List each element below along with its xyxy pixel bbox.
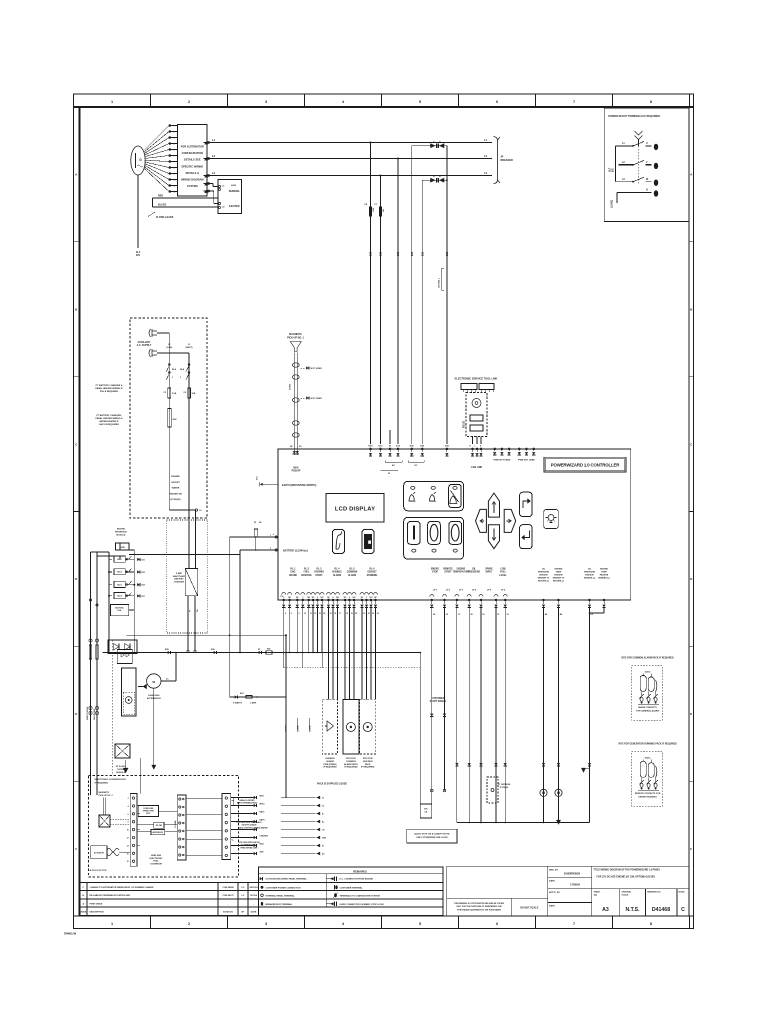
svg-text:CRANK: CRANK [289,574,297,577]
svg-text:RUNNING: RUNNING [367,575,378,577]
svg-text:START: START [444,571,452,574]
svg-text:PNL B REQUIRED: PNL B REQUIRED [100,391,119,393]
svg-text:3: 3 [174,138,175,140]
svg-text:8 WAY CONNECTOR ON EMER. STOP: 8 WAY CONNECTOR ON EMER. STOP LOOM [340,903,384,906]
svg-text:ALARM: ALARM [326,760,334,763]
svg-text:PURCHASED EQUIPMENT BY THE PUR: PURCHASED EQUIPMENT BY THE PURCHASER [457,908,501,911]
svg-text:SYSTEM: SYSTEM [187,184,197,188]
svg-text:RS232: RS232 [464,420,466,428]
svg-text:START SIGNAL: START SIGNAL [430,700,447,703]
svg-text:CON-24288: CON-24288 [222,886,234,889]
svg-text:J.C.: J.C. [241,887,245,889]
svg-text:RLA: RLA [180,368,185,371]
svg-text:D.C. CONNECTOR FROM ENGINE: D.C. CONNECTOR FROM ENGINE [340,879,374,881]
svg-text:REMOTE: REMOTE [443,569,453,571]
svg-text:RL-3: RL-3 [317,569,323,571]
svg-text:ELECTRONIC GOVERNOR BOX: ELECTRONIC GOVERNOR BOX [95,779,127,781]
svg-text:QUICK STOP ON A CANOPY NOTE: QUICK STOP ON A CANOPY NOTE [414,833,450,836]
svg-text:J COMM: J COMM [175,820,177,828]
svg-text:FIRST ISSUE: FIRST ISSUE [90,904,103,906]
svg-text:GND: GND [322,838,327,840]
svg-text:A PLUG OF FCE: A PLUG OF FCE [90,869,107,872]
svg-text:RD TAD: RD TAD [156,824,163,827]
svg-text:ASSY B REQUIRED: ASSY B REQUIRED [99,423,119,426]
svg-text:DETAILS SEE: DETAILS SEE [184,158,201,162]
svg-text:DESCRIPTION: DESCRIPTION [90,912,105,914]
svg-text:OUTGOING/INCOMING PANEL TERMIN: OUTGOING/INCOMING PANEL TERMINAL [266,878,308,881]
svg-text:2X D+/W.L: 2X D+/W.L [116,766,127,768]
svg-text:DATE: DATE [549,905,555,908]
svg-text:28: 28 [471,614,473,616]
svg-text:LOW: LOW [500,569,506,571]
svg-text:(IF REQD): (IF REQD) [170,499,181,501]
svg-text:14: 14 [323,612,325,615]
svg-text:E/S: E/S [613,168,615,172]
svg-text:REMOTE CONTACTS FOR: REMOTE CONTACTS FOR [635,792,661,795]
svg-text:25: 25 [446,614,448,616]
svg-text:START: START [315,574,323,577]
svg-text:INPUT: INPUT [486,572,493,574]
svg-text:LCD DISPLAY: LCD DISPLAY [335,507,375,513]
svg-text:BATTERY: BATTERY [174,578,184,581]
svg-text:CHANGE TO ALTERNATOR WIRING/MO: CHANGE TO ALTERNATOR WIRING/MOD. OF NUMB… [90,886,155,889]
svg-text:HEATER 9W: HEATER 9W [169,492,183,495]
svg-text:DRAWING NO.: DRAWING NO. [647,891,661,894]
svg-text:6: 6 [496,922,498,926]
svg-text:SENDER (+): SENDER (+) [598,578,610,580]
svg-text:PICKUP: PICKUP [292,471,301,473]
svg-text:SCALE: SCALE [622,893,629,896]
svg-text:3P: 3P [501,157,504,159]
svg-text:DETAILS &: DETAILS & [186,171,199,175]
svg-text:ALT: ALT [609,167,612,172]
svg-text:RETURN (-): RETURN (-) [553,581,564,583]
svg-text:C2: C2 [199,510,201,512]
svg-text:CONTROL: CONTROL [301,575,313,577]
svg-text:DRN03.08: DRN03.08 [64,932,77,936]
svg-text:9: 9 [299,613,300,615]
svg-text:10: 10 [127,830,129,832]
svg-text:PACK: PACK [365,763,371,766]
svg-text:MODULE: MODULE [116,772,126,774]
svg-text:FUEL: FUEL [304,572,311,574]
svg-text:GENSET: GENSET [367,572,377,574]
svg-text:FUEL: FUEL [500,572,507,574]
svg-text:LEVEL: LEVEL [499,575,507,577]
svg-text:PT O/PRESS: PT O/PRESS [498,784,511,786]
svg-text:21: 21 [363,613,365,615]
svg-text:16: 16 [334,613,336,615]
svg-text:ALARM: ALARM [348,574,356,577]
svg-text:SENDER TO: SENDER TO [538,578,550,580]
svg-text:N.T.S.: N.T.S. [625,907,640,913]
svg-text:BATTERY (12/24Vdc): BATTERY (12/24Vdc) [283,550,308,553]
svg-text:E05: E05 [142,572,145,574]
svg-text:ENGINE: ENGINE [600,569,608,571]
svg-text:4: 4 [128,805,129,808]
svg-text:5: 5 [419,922,421,926]
svg-text:11: 11 [174,186,176,188]
svg-text:RLA: RLA [172,368,177,371]
svg-text:8: 8 [650,922,652,926]
svg-text:MPU+: MPU+ [260,804,266,806]
svg-text:MTG FOR COMMON ALARM PACK IF R: MTG FOR COMMON ALARM PACK IF REQUIRED [622,657,674,660]
svg-text:2: 2 [174,132,175,134]
svg-text:17: 17 [339,613,341,615]
svg-text:PANEL HEATER WIRING &: PANEL HEATER WIRING & [96,417,123,420]
svg-text:1(2): 1(2) [594,894,598,896]
svg-text:PICK-UP NO. 1: PICK-UP NO. 1 [287,336,304,339]
svg-text:EARTH [MOUNTING NORTH]: EARTH [MOUNTING NORTH] [282,484,316,487]
svg-text:FUEL: FUEL [153,861,159,863]
svg-text:CHARGE: CHARGE [260,827,269,830]
svg-text:POWER IN/OUT TERMINALS IF REQU: POWER IN/OUT TERMINALS IF REQUIRED [608,114,660,118]
svg-text:RL-5: RL-5 [350,569,356,571]
svg-text:19: 19 [351,613,353,615]
svg-text:DA13: DA13 [645,756,651,759]
svg-text:7: 7 [573,100,575,104]
svg-text:8: 8 [650,100,652,104]
svg-text:1 AMP: 1 AMP [250,702,257,705]
svg-text:CONN: CONN [120,547,126,549]
svg-text:6: 6 [285,613,286,615]
svg-text:C: C [681,907,685,913]
svg-text:24/11/04: 24/11/04 [250,886,259,889]
svg-text:TITLE WIRING DIAGRAM OF THE P: TITLE WIRING DIAGRAM OF THE POWERWIZARD … [594,869,661,872]
svg-text:DIODE: DIODE [118,769,125,771]
svg-text:MTG FOR: MTG FOR [363,758,373,760]
svg-text:10A: 10A [372,208,375,212]
svg-text:3: 3 [265,100,267,104]
svg-text:CUSTOMER POWER CONNECTION: CUSTOMER POWER CONNECTION [266,887,301,889]
svg-text:8: 8 [128,822,129,824]
svg-text:MAINS CONTACTS: MAINS CONTACTS [638,706,657,709]
svg-text:AUDIBLE: AUDIBLE [325,757,335,760]
svg-text:EMERG: EMERG [431,569,440,571]
svg-text:10: 10 [174,180,176,182]
svg-text:SENSING: SENSING [229,190,240,193]
svg-text:VE4D 4500: VE4D 4500 [151,854,162,857]
svg-text:B+: B+ [322,822,324,824]
svg-text:EARTH BOSS: EARTH BOSS [86,706,89,720]
svg-text:D41468: D41468 [652,907,670,913]
svg-text:GOVERNOR: GOVERNOR [150,863,162,865]
svg-text:EXCITER: EXCITER [229,205,240,208]
svg-text:PASSIVE: PASSIVE [554,574,563,577]
svg-text:13: 13 [319,613,321,615]
svg-text:DATE: DATE [251,911,257,914]
svg-text:DO NOT SCALE: DO NOT SCALE [520,907,538,910]
svg-text:ENGINE: ENGINE [555,569,563,571]
svg-text:COMMON: COMMON [347,572,358,574]
svg-text:6: 6 [496,100,498,104]
svg-text:E30: E30 [446,251,449,256]
svg-text:IF REQUIRED: IF REQUIRED [344,767,358,769]
svg-text:INTERFACE: INTERFACE [115,530,127,533]
svg-text:15: 15 [330,613,332,615]
svg-text:PWB NOT USED: PWB NOT USED [494,460,511,462]
svg-text:6: 6 [128,814,129,816]
svg-text:31: 31 [497,614,499,616]
svg-text:E20: E20 [411,251,414,256]
svg-text:DA13: DA13 [645,670,651,673]
svg-text:NOT USED: NOT USED [311,398,323,400]
svg-text:RL-2: RL-2 [304,569,310,571]
svg-text:ACTUATOR: ACTUATOR [94,852,105,855]
svg-text:DRN. BY: DRN. BY [549,870,559,872]
svg-text:ISSUE: ISSUE [679,892,686,894]
svg-text:PRESSURE: PRESSURE [468,572,481,574]
svg-text:2kW: 2kW [173,419,177,421]
svg-text:10A: 10A [192,392,196,395]
svg-text:A/S2: A/S2 [231,184,237,187]
svg-text:17/06/04: 17/06/04 [570,884,580,887]
svg-text:5 AMP: 5 AMP [176,572,183,575]
svg-text:PICK-UP NO. 2: PICK-UP NO. 2 [99,795,114,797]
svg-text:9: 9 [174,174,175,176]
svg-text:E08: E08 [142,585,145,587]
svg-text:E01: E01 [142,559,145,561]
svg-text:CHASSIS: CHASSIS [260,835,269,838]
svg-text:7: 7 [573,922,575,926]
svg-text:BREAKER BOX TERMINAL: BREAKER BOX TERMINAL [266,903,293,906]
svg-text:RETURN (-): RETURN (-) [538,581,549,583]
svg-text:PRESSURE: PRESSURE [538,572,550,574]
svg-text:12: 12 [174,192,176,194]
svg-text:PWR (PNMA): PWR (PNMA) [324,763,337,766]
svg-text:7: 7 [174,162,175,164]
svg-text:6 WATTS: 6 WATTS [233,702,242,705]
svg-text:SPARE: SPARE [297,725,300,732]
svg-text:REMARKS: REMARKS [353,869,367,873]
svg-text:2: 2 [128,798,129,800]
svg-text:F2: F2 [258,649,260,651]
svg-text:4: 4 [174,143,175,146]
svg-text:9E WITH CABLE: 9E WITH CABLE [242,824,257,827]
svg-text:N/C: N/C [424,809,428,811]
svg-text:MTG FOR GENERATOR RUNNING PACK: MTG FOR GENERATOR RUNNING PACK IF REQUIR… [618,743,677,746]
svg-text:SHEET: SHEET [594,892,601,894]
svg-text:AC: AC [392,464,396,467]
svg-text:PACK IS SUPPLIED LOOSE: PACK IS SUPPLIED LOOSE [317,783,347,786]
svg-text:MTG FOR: MTG FOR [346,758,356,760]
svg-text:6: 6 [174,156,175,158]
svg-text:D.MORRISON: D.MORRISON [564,873,580,876]
svg-text:32: 32 [507,614,509,616]
svg-text:12: 12 [314,613,316,615]
svg-text:RL-1: RL-1 [291,569,297,571]
svg-text:IF REQUIRED: IF REQUIRED [323,767,337,769]
svg-text:RL-4: RL-4 [335,568,341,571]
svg-text:IF REQD: IF REQD [500,787,509,789]
svg-text:SPECIFIC WIRING: SPECIFIC WIRING [181,164,203,168]
svg-text:BLACK: BLACK [158,204,167,207]
svg-text:2: 2 [188,100,190,104]
svg-text:OIL: OIL [472,569,476,571]
svg-text:C1: C1 [222,186,224,188]
svg-text:WATER HEATER IF: WATER HEATER IF [99,420,119,423]
svg-text:ORIGINAL: ORIGINAL [622,891,633,894]
svg-text:SPARE: SPARE [309,725,312,732]
svg-text:J.C.: J.C. [241,895,245,897]
svg-text:A3: A3 [602,907,609,913]
svg-text:SENDER (+): SENDER (+) [584,578,596,580]
svg-text:AUDIBLE: AUDIBLE [332,571,342,574]
svg-text:CUSTOMER: CUSTOMER [431,698,444,700]
svg-text:POWERWIZARD 1.0 CONTROLLER: POWERWIZARD 1.0 CONTROLLER [551,463,620,468]
svg-text:FREE SPEED LINK: FREE SPEED LINK [241,847,259,849]
svg-text:FOR GENERAL ALARM: FOR GENERAL ALARM [636,710,659,713]
svg-text:E09: E09 [370,251,373,256]
svg-text:E13: E13 [397,251,400,256]
svg-text:1: 1 [174,126,175,128]
svg-text:ELECTRONIC SERVICE TOOL LINK: ELECTRONIC SERVICE TOOL LINK [455,377,498,381]
svg-text:DC: DC [414,465,418,467]
svg-text:CON-24175: CON-24175 [222,894,234,897]
svg-text:SANCTUARY: SANCTUARY [173,575,186,578]
svg-text:W: W [152,680,155,684]
svg-text:RE-LABLING TERMINALS/CONTROLLE: RE-LABLING TERMINALS/CONTROLLER [90,894,131,897]
svg-text:ENGINE: ENGINE [457,569,466,571]
svg-text:WIRING DIAGRAM: WIRING DIAGRAM [181,178,203,182]
svg-text:1: 1 [111,922,113,926]
svg-text:ENGINE: ENGINE [117,529,126,531]
svg-text:FOR 12V DC HGE ENGINE (9Y 10N,: FOR 12V DC HGE ENGINE (9Y 10N, OPTIONALO… [597,876,656,879]
svg-text:FOR 1500 RPM LINK 9E: FOR 1500 RPM LINK 9E [238,842,260,844]
svg-text:BATT-: BATT- [260,811,266,814]
svg-text:FREQ CONTROL PANEL: FREQ CONTROL PANEL [238,826,261,829]
svg-text:W: W [388,473,390,475]
svg-text:14: 14 [127,844,129,847]
svg-text:INTERNAL PANEL TERMINAL: INTERNAL PANEL TERMINAL [266,894,296,897]
svg-text:IF REQUIRED: IF REQUIRED [361,767,375,769]
svg-text:5: 5 [174,150,175,152]
svg-text:ISSUE: ISSUE [80,912,87,914]
svg-text:THE DRAWING IS COPYRIGHTED AND: THE DRAWING IS COPYRIGHTED AND MAY BE CO… [454,902,505,905]
svg-text:TEMP: TEMP [601,572,607,574]
svg-text:BATT+: BATT+ [260,819,267,822]
svg-text:E: E [75,712,77,716]
svg-text:MPU-: MPU- [260,796,265,798]
svg-text:A.C. SUPPLY: A.C. SUPPLY [137,344,152,347]
svg-text:SENDER TO: SENDER TO [553,578,565,580]
svg-text:FOR ALTERNATOR: FOR ALTERNATOR [181,145,204,149]
svg-text:16: 16 [127,853,129,855]
svg-text:COMMON: COMMON [346,761,356,763]
svg-text:BREAKER: BREAKER [501,159,514,162]
svg-text:ELECTRONIC: ELECTRONIC [150,858,164,860]
svg-text:ENG: ENG [291,572,296,574]
svg-text:STOP: STOP [432,572,439,574]
svg-text:12: 12 [127,838,129,840]
svg-text:E10: E10 [380,251,383,256]
svg-text:23: 23 [372,613,374,615]
svg-text:2: 2 [188,922,190,926]
svg-text:ONLY OTHERWISE USE LOOM: ONLY OTHERWISE USE LOOM [416,837,447,839]
svg-text:- CAN LINK: - CAN LINK [470,466,483,469]
svg-text:3: 3 [265,922,267,926]
svg-text:E/S: E/S [136,254,140,257]
svg-text:C2: C2 [322,806,324,808]
svg-text:-: - [273,552,274,555]
svg-text:2.5A: 2.5A [172,392,177,395]
svg-text:PT BATTERY CHARGER,: PT BATTERY CHARGER, [96,414,122,417]
svg-text:DA5 FUEL: DA5 FUEL [115,607,125,610]
svg-text:IF REQUIRED: IF REQUIRED [95,782,109,784]
svg-text:TEMP: TEMP [556,572,562,574]
svg-text:JACKET: JACKET [171,481,180,484]
svg-text:RED: RED [158,195,163,198]
svg-text:8: 8 [174,168,175,170]
svg-text:IDLE: IDLE [260,844,265,846]
svg-text:APP'D. BY: APP'D. BY [549,891,560,894]
svg-text:ANALOG SPEED: ANALOG SPEED [239,799,255,802]
svg-text:TERMINALS TO CHANGEOVER SYSTEM: TERMINALS TO CHANGEOVER SYSTEM [340,894,380,897]
svg-text:MODULE: MODULE [116,534,126,536]
svg-text:E01: E01 [142,596,145,598]
svg-text:ALARM PACK: ALARM PACK [344,763,358,766]
svg-text:WATER: WATER [172,487,180,490]
svg-text:E26: E26 [422,251,425,256]
svg-text:SPARE: SPARE [485,568,493,571]
svg-text:F: F [75,847,77,851]
svg-text:C1: C1 [322,798,324,800]
svg-text:MPU: MPU [146,813,151,815]
svg-text:22: 22 [368,613,370,615]
svg-text:(LIVE): (LIVE) [166,347,172,349]
svg-text:PASSIVE: PASSIVE [600,574,609,577]
svg-text:(LOAD): (LOAD) [611,200,614,208]
svg-text:E: E [690,712,692,716]
svg-text:GENSET RUNNING: GENSET RUNNING [638,797,657,799]
svg-text:PWB NOT USED: PWB NOT USED [518,460,535,462]
svg-text:CUSTOMER TERMINAL: CUSTOMER TERMINAL [340,886,364,889]
svg-text:5A: 5A [382,209,385,212]
svg-text:NOT USED: NOT USED [311,368,323,370]
svg-text:ENGINE: ENGINE [171,476,180,478]
svg-text:ALARM: ALARM [333,574,341,577]
svg-text:1: 1 [111,100,113,104]
svg-text:CHARGER: CHARGER [174,580,185,583]
svg-text:C2: C2 [222,207,224,209]
svg-text:CONFIGURATION: CONFIGURATION [182,151,203,155]
svg-text:18: 18 [346,613,348,615]
svg-text:10/7/04: 10/7/04 [250,894,258,897]
svg-text:PRESSURE: PRESSURE [584,572,596,574]
svg-text:RL-6: RL-6 [370,569,376,571]
svg-text:DATE: DATE [549,880,555,883]
svg-text:SCRN: SCRN [290,384,292,390]
svg-text:GEN RUN: GEN RUN [363,761,373,763]
svg-text:THERMO: THERMO [314,572,324,574]
svg-text:(NEUT): (NEUT) [186,347,193,349]
svg-text:30: 30 [482,614,484,616]
svg-text:PASSIVE: PASSIVE [585,574,594,577]
svg-text:ONLY FOR THE PURPOSES OF MAINT: ONLY FOR THE PURPOSES OF MAINTAINING THE [456,905,502,908]
svg-text:PT BATTERY CHARGER &: PT BATTERY CHARGER & [96,384,123,387]
svg-text:F: F [690,847,692,851]
svg-text:ECN/DCN: ECN/DCN [223,912,233,914]
svg-text:20: 20 [355,613,357,615]
svg-text:8: 8 [291,613,292,615]
svg-text:PANEL HEATER WIRING IF: PANEL HEATER WIRING IF [95,387,123,390]
svg-text:PASSIVE: PASSIVE [539,574,548,577]
svg-text:24: 24 [377,612,379,615]
svg-text:27: 27 [458,614,460,616]
svg-text:5: 5 [419,100,421,104]
svg-text:FLYING LEADS: FLYING LEADS [156,216,174,219]
svg-text:10: 10 [304,613,306,615]
